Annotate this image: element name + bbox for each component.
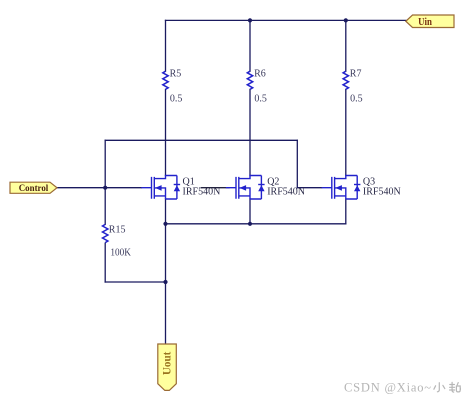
- svg-text:0.5: 0.5: [170, 93, 183, 104]
- node Control junction: [103, 186, 107, 190]
- svg-text:Control: Control: [19, 184, 49, 194]
- port Control: [10, 182, 57, 194]
- wire to Q3 gate: [297, 187, 321, 189]
- port Uin: [406, 15, 454, 28]
- wire gate drop to Q3: [296, 140, 298, 187]
- node output R15 junction: [163, 280, 167, 284]
- wire col1 drain upper: [165, 20, 167, 71]
- svg-text:100K: 100K: [110, 248, 131, 259]
- node source bus col2: [248, 222, 252, 226]
- svg-text:0.5: 0.5: [350, 93, 363, 104]
- wire Q2 source down: [249, 199, 251, 224]
- wire gate distribution horizontal: [105, 139, 297, 141]
- svg-text:IRF540N: IRF540N: [267, 187, 305, 198]
- svg-text:R7: R7: [350, 68, 362, 79]
- resistor R6: [247, 68, 267, 104]
- svg-text:0.5: 0.5: [254, 93, 267, 104]
- resistor R7: [343, 68, 363, 104]
- wire source bus: [166, 223, 346, 225]
- port Uout: [158, 344, 177, 390]
- wire left vertical to R15 top: [104, 140, 106, 224]
- wire R15 to output node: [105, 281, 165, 283]
- wire Q3 source down: [345, 199, 347, 224]
- svg-text:R6: R6: [254, 68, 266, 79]
- transistor Q2: [226, 176, 305, 200]
- svg-text:IRF540N: IRF540N: [363, 187, 401, 198]
- transistor Q1: [141, 176, 220, 200]
- resistor R15: [103, 224, 132, 258]
- svg-text:Uout: Uout: [162, 351, 174, 375]
- resistor R5: [163, 68, 183, 104]
- wire col3 drain lower: [345, 89, 347, 175]
- wire R15 bottom vertical: [104, 243, 106, 282]
- wire col2 drain upper: [249, 20, 251, 71]
- wire col3 drain upper: [345, 20, 347, 71]
- node top rail col3: [344, 18, 348, 22]
- svg-text:CSDN @Xiao~: CSDN @Xiao~: [344, 381, 432, 395]
- svg-text:R5: R5: [170, 68, 182, 79]
- wire top rail Uin: [166, 19, 406, 21]
- wire col1 drain lower: [165, 89, 167, 175]
- wire Q2 gate stub: [202, 187, 229, 189]
- watermark CSDN: [344, 381, 460, 395]
- transistor Q3: [322, 176, 401, 200]
- node source bus col1: [163, 222, 167, 226]
- wire output down to Uout: [165, 224, 167, 344]
- svg-text:R15: R15: [109, 224, 126, 235]
- wire col2 drain lower: [249, 89, 251, 175]
- node top rail col2: [248, 18, 252, 22]
- wire Q1 source down: [165, 199, 167, 224]
- svg-text:Uin: Uin: [418, 17, 432, 28]
- wire Control to Q1 gate: [57, 187, 141, 189]
